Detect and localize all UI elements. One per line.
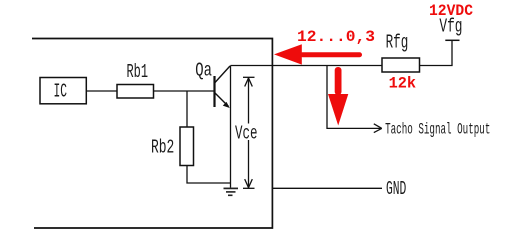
annotation red arrow (points left at collector rail) [274,44,362,64]
wire Rb1 to Q base [154,90,215,92]
wire collector rail to Rfg [231,65,383,67]
circuit enclosure box (open left side) [32,39,272,229]
annotation red arrow down [328,67,348,126]
svg-text:12VDC: 12VDC [429,2,473,20]
wire GND rail [272,187,382,189]
wire Rfg to Vfg terminal [420,40,453,65]
resistor Rfg [382,58,420,72]
resistor Rb2 [180,127,194,166]
wire IC to Rb1 [86,90,117,92]
wire collector-emitter vertical [230,66,232,188]
svg-text:IC: IC [54,81,68,103]
svg-text:Qa: Qa [195,60,212,82]
svg-text:Rb2: Rb2 [151,136,174,158]
svg-text:Vce: Vce [235,123,258,145]
svg-text:Rb1: Rb1 [127,61,149,83]
IC box [40,78,86,104]
node junction: wire down to Rb2 [186,91,188,127]
transistor Qa [215,66,231,108]
wire Rb2 bottom to ground node [187,166,231,184]
resistor Rb1 [117,85,154,99]
svg-text:Tacho Signal Output: Tacho Signal Output [385,120,490,138]
Vce measurement arrows [243,77,255,188]
wire tacho branch [327,66,381,129]
svg-text:12k: 12k [389,75,417,93]
svg-text:GND: GND [386,178,406,200]
arrowhead tacho [374,124,382,133]
svg-text:12...0,3: 12...0,3 [297,28,375,46]
terminal Vfg cap [445,39,459,41]
label Vce [234,124,260,141]
svg-text:Rfg: Rfg [386,32,409,54]
ground symbol [224,188,239,195]
